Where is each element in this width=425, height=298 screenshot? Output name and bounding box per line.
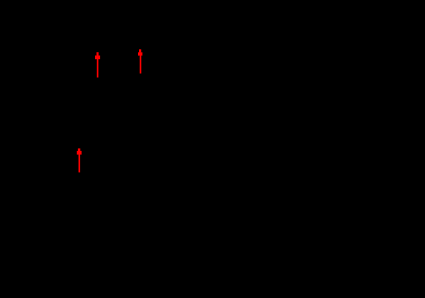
wire: bottom horizontal <box>60 229 170 231</box>
ground <box>108 230 122 248</box>
wire: middle horizontal <box>110 45 170 230</box>
resistor R2 <box>148 45 158 80</box>
resistor R1 <box>105 45 115 80</box>
voltage arrow U2 (red, points up, beside R2) <box>138 49 142 73</box>
wire: left vertical branch <box>59 45 61 230</box>
wire: top horizontal <box>60 44 170 46</box>
voltage arrow U1 (red, points up, beside R1) <box>95 52 100 77</box>
voltage source V1 <box>48 148 72 172</box>
voltage arrow Uq (red, points up, beside source V1) <box>77 148 82 172</box>
